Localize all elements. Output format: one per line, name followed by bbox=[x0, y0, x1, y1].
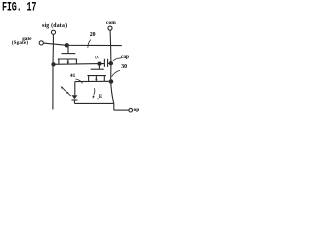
capacitor cap plate left bbox=[103, 59, 105, 67]
terminal sig bbox=[51, 30, 55, 34]
leader for 20 bbox=[88, 40, 91, 48]
wire OLED anode bbox=[74, 82, 76, 96]
terminal gate bbox=[39, 41, 43, 45]
label sig (data) bbox=[42, 23, 67, 29]
node dot gate/Q20 bbox=[65, 44, 68, 47]
label op bbox=[134, 107, 140, 113]
leader for cap bbox=[113, 58, 121, 61]
transistor Q30 channel bar bbox=[87, 75, 106, 77]
transistor Q20 gate lead bbox=[67, 45, 69, 53]
terminal com bbox=[108, 26, 112, 30]
node dot cap/com bbox=[109, 62, 112, 65]
transistor Q20 source leg bbox=[58, 59, 60, 64]
transistor Q30 substrate arrow bbox=[95, 76, 97, 81]
node dot sig/Q20 wire bbox=[52, 63, 55, 66]
transistor Q20 drain leg bbox=[75, 59, 77, 64]
label 41 bbox=[70, 73, 75, 79]
transistor Q20 substrate arrow bbox=[67, 59, 69, 64]
transistor Q20 gate bar bbox=[62, 53, 76, 55]
diode D41 cathode bar bbox=[72, 99, 78, 101]
leader for 30 bbox=[112, 70, 120, 76]
wire to op terminal bbox=[114, 109, 129, 111]
leader E with arrowhead and dot bbox=[94, 88, 95, 95]
emission arrow 2 bbox=[67, 93, 71, 97]
wire com vertical bbox=[110, 30, 114, 103]
wire step down bbox=[113, 103, 115, 110]
node dot storage node bbox=[98, 62, 101, 65]
label com bbox=[106, 20, 116, 26]
label E bbox=[99, 94, 102, 100]
leader for 41 bbox=[75, 79, 82, 83]
wire Q30 through-wire bbox=[75, 80, 111, 82]
transistor Q30 drain leg bbox=[103, 76, 105, 82]
node dot Q30/com bbox=[109, 80, 112, 83]
label 20 bbox=[90, 32, 96, 38]
transistor Q30 gate lead bbox=[98, 64, 100, 69]
transistor Q30 gate bar bbox=[91, 68, 104, 70]
emission arrow 1 bbox=[62, 87, 66, 91]
wire sig vertical bbox=[52, 34, 55, 109]
figure title FIG. 17 bbox=[2, 0, 36, 15]
label gate bbox=[22, 36, 31, 42]
terminal op bbox=[129, 108, 133, 112]
transistor Q30 source leg bbox=[88, 76, 90, 82]
capacitor cap plate right bbox=[107, 59, 109, 67]
label 30 bbox=[121, 64, 127, 70]
label cap bbox=[121, 54, 129, 60]
tiny st mark above node bbox=[95, 56, 98, 59]
wire capacitor to com bbox=[108, 62, 111, 64]
label (Sgate) bbox=[12, 41, 28, 46]
transistor Q20 channel bar bbox=[58, 58, 77, 60]
wire gate line bbox=[44, 43, 122, 46]
wire Q20 through-wire to capacitor bbox=[54, 63, 105, 66]
wire OLED cathode down bbox=[73, 100, 75, 103]
wire cathode to right bbox=[74, 102, 113, 104]
diode D41 triangle bbox=[72, 95, 78, 99]
